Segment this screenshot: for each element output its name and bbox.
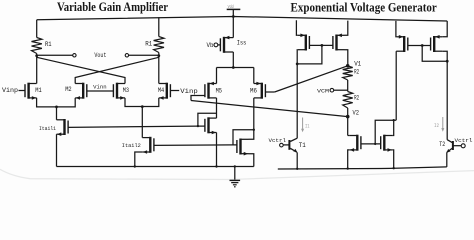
wire N4 drain riser: [392, 120, 393, 135]
transistor N1 (mirror diode for Itail1): [207, 117, 209, 133]
svg-text:I2: I2: [434, 122, 439, 129]
resistor R1 (right): [158, 17, 160, 36]
svg-text:T1: T1: [299, 142, 306, 149]
wire P3-P4 gate tie: [408, 45, 431, 47]
svg-text:M5: M5: [216, 87, 223, 94]
wire P3 source to VDD rail: [395, 21, 397, 37]
svg-text:Vctrl: Vctrl: [269, 137, 287, 144]
wire P2 drain to node V1: [345, 50, 348, 66]
wire left R1 bottom node to M1 drain: [36, 54, 38, 84]
wire diagonal M5 gate to node V2: [191, 101, 348, 117]
transistor M5: [207, 83, 209, 99]
wire Itail1 source to ground rail: [56, 134, 58, 166]
svg-text:Vinp: Vinp: [180, 88, 198, 95]
svg-text:VCM: VCM: [317, 87, 330, 94]
wire Vout right terminal: [125, 54, 128, 57]
svg-text:Vout: Vout: [94, 52, 106, 59]
wire N1 source to ground rail: [216, 133, 218, 167]
wire T1 emitter to ground: [296, 152, 298, 169]
svg-text:R2: R2: [354, 68, 359, 75]
svg-text:R2: R2: [354, 95, 359, 102]
transistor T2 (NPN): [452, 141, 454, 150]
svg-text:Exponential Voltage Generator: Exponential Voltage Generator: [291, 0, 438, 14]
svg-text:R1: R1: [145, 41, 152, 48]
wire M6 gate to diagonal: [265, 91, 274, 93]
wire N2 drain riser: [249, 130, 254, 140]
svg-text:Vdd: Vdd: [228, 5, 234, 10]
wire P1 diode loop to gates: [297, 45, 322, 64]
transistor M3: [116, 83, 118, 99]
current arrow I1: [302, 118, 304, 131]
transistor T1 (NPN): [288, 140, 290, 150]
wire N4 source to ground: [392, 150, 393, 168]
wire Itail2 source to ground rail: [135, 152, 143, 167]
wire M3/M4 sources to Itail2: [125, 98, 159, 107]
svg-text:Vinn: Vinn: [93, 84, 107, 91]
wire P4 drain down to T2 collector: [442, 51, 447, 140]
node V2: [346, 115, 350, 119]
wire N3-N4 gate tie: [361, 143, 381, 145]
transistor Itail2: [149, 137, 151, 153]
wire T2 emitter to ground: [446, 152, 448, 167]
transistor M6: [261, 83, 263, 99]
wire P4 source to VDD rail: [442, 21, 447, 37]
wire P3 drain down to mirror: [395, 51, 397, 120]
node Vinn (M2/M3 gates): [87, 90, 114, 92]
wire Itail1 gate mirror wire: [68, 126, 198, 127]
wire N3 source to ground: [348, 150, 350, 169]
resistor R1 (left): [36, 20, 38, 38]
wire N2 diode gate loop: [233, 130, 254, 145]
transistor P4 (right PMOS mirror, diode): [433, 36, 435, 52]
transistor N2 (mirror diode for Itail2): [239, 139, 241, 155]
svg-text:Vb: Vb: [207, 42, 214, 49]
wire P1-P2 gate tie: [309, 44, 333, 46]
wire P1 source to VDD rail: [296, 20, 297, 35]
ground symbol: [234, 167, 236, 180]
transistor P3 (right PMOS mirror out): [403, 36, 405, 52]
wire right R1 bottom node to M4 drain: [158, 53, 160, 84]
node V1: [346, 64, 350, 68]
svg-text:Vinp: Vinp: [2, 87, 18, 94]
wire diagonal M6 gate to node V1: [275, 66, 348, 92]
wire Iss drain to M5/M6 sources: [232, 51, 233, 53]
transistor Vb PMOS current source Iss: [223, 37, 225, 53]
ground rail (exp generator bottom): [278, 167, 447, 169]
svg-text:Iss: Iss: [237, 39, 247, 46]
wire N3 drain ext: [348, 135, 350, 137]
wire V2 to N3 drain: [347, 117, 349, 136]
svg-text:Variable Gain Amplifier: Variable Gain Amplifier: [57, 0, 168, 14]
transistor M4: [166, 83, 168, 99]
current arrow I2: [442, 117, 444, 129]
wire M5 drain to N1 diode: [216, 98, 218, 118]
wire Itail2 gate mirror wire: [154, 144, 233, 147]
transistor N4 (NMOS mirror diode): [383, 135, 385, 151]
node Vinp (M4 gate): [170, 90, 179, 92]
svg-text:Itail1: Itail1: [39, 125, 56, 132]
svg-text:M3: M3: [123, 87, 130, 94]
transistor M1: [27, 83, 29, 99]
svg-text:V2: V2: [353, 109, 360, 116]
svg-text:M1: M1: [35, 87, 42, 94]
svg-text:R1: R1: [45, 41, 52, 48]
wire P4 diode loop: [422, 46, 447, 62]
power VDD symbol: [227, 8, 241, 10]
wire Vout left terminal: [37, 54, 73, 56]
transistor P1 (left PMOS mirror, diode): [305, 35, 307, 51]
wire P2 source to VDD rail: [345, 21, 348, 36]
wire M6 drain to N2 diode: [253, 98, 255, 130]
resistor R2 (lower): [343, 92, 353, 109]
wire cross-couple diagonal right-R1 to M2 drain: [75, 57, 159, 83]
transistor N3 (NMOS mirror out at V2): [356, 135, 358, 151]
watermark page-box edge (faint): [0, 169, 474, 179]
wire cross-couple diagonal left-R1 to M3 drain: [37, 57, 125, 83]
wire VDD top rail: [37, 17, 448, 22]
wire R2 mid: [347, 80, 349, 92]
wire P1 drain down to T1 collector: [296, 50, 299, 139]
svg-text:M2: M2: [65, 86, 72, 93]
svg-text:T2: T2: [439, 141, 445, 148]
svg-text:M4: M4: [158, 87, 165, 94]
wire N1 diode gate-drain loop: [198, 113, 217, 126]
wire N2 source to ground rail: [249, 154, 254, 167]
svg-text:Vctrl: Vctrl: [455, 137, 474, 144]
wire N4 diode gate riser: [375, 120, 396, 144]
svg-text:V1: V1: [354, 60, 361, 67]
wire to node V2: [347, 108, 349, 117]
svg-text:Itail2: Itail2: [122, 142, 141, 149]
wire M5/M6 common source: [217, 67, 254, 69]
svg-text:I1: I1: [305, 122, 310, 129]
ground rail (VGA bottom): [57, 166, 254, 168]
wire Iss source to VDD: [232, 37, 233, 39]
terminal VCM: [330, 88, 334, 92]
wire M1/M2 sources to Itail1: [37, 98, 76, 107]
resistor R2 (upper): [343, 66, 353, 80]
transistor M2: [82, 83, 84, 99]
wire M5 gate hook to diagonal: [191, 96, 205, 101]
transistor P2 (left PMOS mirror out): [335, 35, 337, 51]
transistor Itail1: [63, 119, 65, 135]
svg-text:M6: M6: [250, 87, 257, 94]
